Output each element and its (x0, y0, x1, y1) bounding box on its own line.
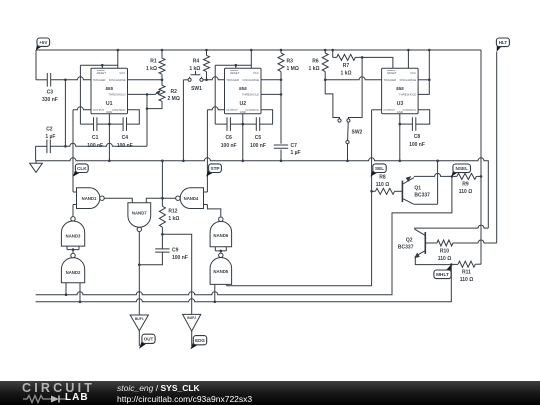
svg-text:R8: R8 (379, 174, 386, 180)
svg-text:R4: R4 (193, 59, 200, 65)
svg-text:R11: R11 (462, 269, 471, 275)
wire NAND7 output drop (138, 232, 140, 315)
svg-text:RESET: RESET (230, 71, 240, 75)
junction gnd SW1 (182, 160, 185, 163)
wire U3 discharge-threshold riser (418, 50, 429, 94)
wire NAND2 input left (65, 283, 67, 295)
svg-text:THRESHOLD: THRESHOLD (242, 93, 259, 97)
wire U2 control elbow (260, 110, 273, 124)
logic gate NAND4 (180, 188, 203, 209)
switch SW2 (338, 119, 341, 122)
logic gate NAND6 (210, 221, 232, 246)
svg-text:RESET: RESET (387, 71, 397, 75)
resistor R1 (161, 50, 163, 58)
svg-text:555: 555 (239, 86, 247, 91)
svg-text:100 nF: 100 nF (409, 142, 425, 148)
logic gate NAND1 (77, 188, 100, 209)
svg-text:110 Ω: 110 Ω (438, 256, 451, 262)
wire R12 branch to BUF2 (162, 234, 191, 314)
svg-text:100 nF: 100 nF (172, 255, 188, 261)
svg-text:1 MΩ: 1 MΩ (287, 66, 299, 72)
wire NAND3 inputs join (67, 246, 79, 250)
wire U2 trigger row (207, 77, 225, 80)
junction gnd U1 (108, 160, 111, 163)
wire U3 control elbow (416, 110, 430, 124)
wire NAND3-NAND2 stem (72, 250, 74, 254)
logic gate NAND3 (61, 221, 84, 246)
svg-text:110 Ω: 110 Ω (460, 277, 473, 283)
svg-text:BC337: BC337 (414, 193, 430, 199)
node STP flag (206, 168, 214, 176)
wire HLT net (496, 52, 498, 243)
svg-text:Q1: Q1 (414, 185, 421, 191)
svg-text:R6: R6 (312, 59, 319, 65)
wire U1 reset link (80, 64, 117, 66)
svg-text:100 nF: 100 nF (117, 143, 133, 149)
wire U3 trigger row (325, 77, 381, 80)
resistor R8 (372, 190, 376, 192)
resistor R9 (452, 175, 457, 177)
node CLK flag (73, 168, 81, 176)
resistor R7 (333, 50, 337, 57)
wire NAND4 output to NAND7 (146, 198, 176, 203)
svg-text:C4: C4 (122, 135, 129, 141)
wire U2 left riser x215 (214, 65, 216, 124)
junction U2 gnd cap row (242, 123, 245, 126)
wire U2 threshold row (261, 93, 281, 95)
wire U3 vcc pin (407, 50, 409, 68)
wire U1 discharge row (128, 79, 163, 81)
capacitor C9 (161, 234, 163, 249)
svg-text:U3: U3 (397, 101, 404, 107)
buffer BUF2 (183, 314, 201, 331)
svg-text:NAND3: NAND3 (66, 233, 81, 238)
junction trigger-C2 link (64, 79, 67, 82)
svg-text:R9: R9 (462, 181, 469, 187)
svg-text:C5: C5 (255, 135, 262, 141)
wire U1 cap row (80, 123, 123, 125)
svg-text:STP: STP (210, 166, 219, 171)
junction gnd NSEL riser (436, 160, 439, 163)
svg-text:C2: C2 (46, 127, 53, 133)
svg-text:C9: C9 (172, 247, 179, 253)
junction U1 gnd cap row (108, 123, 111, 126)
capacitor C1 (94, 117, 97, 131)
svg-text:C1: C1 (92, 135, 99, 141)
svg-text:1 kΩ: 1 kΩ (168, 216, 179, 222)
op-amp U3 555 timer (382, 68, 419, 114)
svg-text:100 nF: 100 nF (87, 143, 103, 149)
wire U1 reset pin (101, 65, 103, 68)
svg-text:330 nF: 330 nF (42, 97, 58, 103)
buffer BUF1 (130, 315, 148, 331)
svg-text:THRESHOLD: THRESHOLD (399, 93, 416, 97)
wire NAND1 inputs (73, 192, 77, 205)
svg-text:C8: C8 (414, 134, 421, 140)
wire U1 control elbow (127, 110, 140, 124)
svg-text:Q2: Q2 (406, 237, 413, 243)
svg-text:RESET: RESET (97, 71, 107, 75)
resistor R3 (280, 50, 282, 53)
wire bus1 (36, 176, 452, 294)
junction gnd SW2 (346, 160, 349, 163)
capacitor C4 (123, 117, 126, 131)
junction gnd C7 (280, 160, 283, 163)
svg-text:TRIGGER: TRIGGER (93, 78, 106, 82)
wire CLK net (72, 110, 74, 192)
wire Q2 base lead (425, 242, 437, 244)
wire Q2 collector row (415, 225, 489, 229)
capacitor C2 (47, 140, 50, 154)
wire SEL riser (371, 110, 373, 286)
op-amp U1 555 timer (91, 68, 128, 114)
CircuitLab logo (22, 383, 94, 403)
junction NSEL node (451, 175, 454, 178)
wire +5V top rail (36, 49, 481, 51)
wire U3 cap row (400, 123, 413, 125)
wire R2 wiper (147, 91, 160, 95)
svg-text:R1: R1 (150, 59, 157, 65)
svg-text:+5V: +5V (39, 40, 47, 45)
node NSEL flag (452, 168, 458, 176)
wire NAND5 input left (214, 284, 216, 301)
svg-text:C6: C6 (225, 135, 232, 141)
wire C7 to gnd bus (280, 150, 282, 161)
wire SW2 feed B (348, 57, 362, 119)
wire R12 riser (161, 161, 163, 198)
transistor Q1 (401, 181, 403, 203)
junction R8-SEL (370, 190, 373, 193)
wire NAND4 inputs (204, 192, 208, 205)
svg-text:1 kΩ: 1 kΩ (341, 70, 352, 76)
capacitor C7 (274, 145, 288, 148)
wire U3 gnd drop (399, 114, 401, 161)
wire U3 output row (372, 109, 382, 111)
wire V+ right drop to R11 (480, 50, 482, 264)
junction gnd R12 branch (161, 160, 164, 163)
capacitor C8 (412, 117, 415, 131)
wire ground bus (36, 158, 489, 228)
switch SW1 (183, 79, 188, 81)
svg-text:VCC: VCC (119, 71, 125, 75)
wire NAND6 output to NAND4 (207, 205, 220, 217)
wire BUF2 output (191, 331, 193, 346)
svg-text:TRIGGER: TRIGGER (226, 78, 239, 82)
wire trigger to C2 row (64, 80, 66, 147)
svg-text:CONTROL: CONTROL (403, 108, 417, 112)
svg-text:555: 555 (105, 86, 113, 91)
wire NAND6 inputs join (215, 247, 226, 251)
wire left gnd drop (35, 146, 37, 161)
svg-text:VCC: VCC (253, 71, 259, 75)
wire NAND3 output to NAND1 (72, 205, 74, 217)
wire SW1 gnd drop (182, 80, 184, 161)
wire NAND1 output to NAND7 (104, 198, 132, 203)
svg-text:SW2: SW2 (352, 129, 363, 135)
svg-text:NAND2: NAND2 (66, 270, 81, 275)
svg-text:BUF1: BUF1 (135, 317, 144, 321)
wire U1 trigger row left (36, 79, 47, 81)
svg-text:OUTPUT: OUTPUT (226, 108, 238, 112)
svg-text:CONTROL: CONTROL (112, 108, 126, 112)
wire BUF1 output (138, 331, 140, 346)
svg-text:THRESHOLD: THRESHOLD (108, 93, 125, 97)
wire Q1 collector row (414, 203, 438, 205)
wire Q2 emitter to MHLT node (415, 256, 451, 264)
wire U1 trigger row right (51, 77, 91, 80)
node MHLT flag (446, 265, 451, 274)
svg-text:BUF2: BUF2 (187, 316, 196, 320)
svg-text:1 kΩ: 1 kΩ (309, 66, 320, 72)
wire U2 reset link (215, 64, 251, 66)
svg-text:DISCHARGE: DISCHARGE (400, 78, 417, 82)
resistor R6 (324, 50, 326, 53)
transistor Q2 (424, 232, 426, 254)
wire U1 threshold row (128, 93, 148, 95)
wire bus2 (36, 265, 452, 302)
wire U3 discharge row (418, 79, 429, 81)
wire U1 vcc pin (117, 50, 119, 68)
svg-text:110 Ω: 110 Ω (376, 182, 389, 188)
svg-text:SW1: SW1 (191, 86, 202, 92)
svg-text:U1: U1 (106, 101, 113, 107)
wire U2 cap row (215, 123, 256, 125)
node HLT flag (497, 42, 502, 51)
wire NSEL riser (437, 161, 439, 205)
svg-text:MHLT: MHLT (436, 272, 449, 277)
svg-text:R12: R12 (168, 209, 177, 215)
resistor R2 potentiometer (161, 80, 163, 86)
node SEL flag (370, 168, 378, 176)
svg-text:NAND4: NAND4 (184, 196, 199, 201)
wire U2 gnd drop (242, 114, 244, 161)
svg-text:DISCHARGE: DISCHARGE (109, 78, 126, 82)
svg-text:HLT: HLT (499, 40, 508, 45)
resistor R4 (206, 50, 208, 55)
wire U1 output row (73, 107, 91, 110)
svg-text:U2: U2 (239, 101, 246, 107)
svg-text:1 µF: 1 µF (291, 150, 301, 156)
svg-text:NAND6: NAND6 (213, 233, 228, 238)
capacitor C6 (227, 117, 230, 131)
svg-text:C3: C3 (47, 90, 54, 96)
wire threshold drop x147 (146, 94, 148, 146)
svg-text:1 kΩ: 1 kΩ (189, 66, 200, 72)
svg-text:R3: R3 (287, 59, 294, 65)
node OUT flag (139, 339, 147, 349)
svg-text:NAND1: NAND1 (82, 196, 97, 201)
junction MHLT node (450, 263, 453, 266)
wire NAND5 input right to SEL riser (227, 284, 372, 285)
wire U2 vcc pin (250, 50, 252, 68)
ground (30, 161, 43, 173)
node +5V flag (36, 42, 42, 50)
svg-text:NAND7: NAND7 (132, 211, 147, 216)
junction NAND7-C9 (138, 264, 141, 267)
svg-text:R10: R10 (440, 248, 449, 254)
svg-text:VCC: VCC (410, 71, 416, 75)
svg-text:EDG: EDG (195, 338, 205, 343)
svg-text:555: 555 (396, 86, 404, 91)
svg-text:CONTROL: CONTROL (246, 108, 260, 112)
svg-text:100 nF: 100 nF (221, 143, 237, 149)
capacitor C5 (256, 117, 259, 131)
wire NAND6-NAND5 stem (220, 251, 222, 253)
svg-text:R7: R7 (343, 63, 350, 69)
svg-text:1 µF: 1 µF (45, 134, 55, 140)
wire C2 row right (50, 143, 147, 146)
svg-text:R2: R2 (171, 89, 178, 95)
svg-text:1 kΩ: 1 kΩ (146, 66, 157, 72)
wire Q1 emitter row (414, 173, 452, 176)
logic gate NAND2 (61, 258, 84, 283)
svg-text:BC337: BC337 (398, 245, 414, 251)
svg-text:110 Ω: 110 Ω (459, 189, 472, 195)
logic gate NAND5 (210, 258, 232, 285)
wire U2 discharge row (261, 79, 281, 81)
wire SW2 feed A (325, 80, 339, 119)
svg-text:NSEL: NSEL (455, 166, 468, 171)
wire C2 row left (36, 145, 47, 147)
node EDG flag (190, 341, 198, 350)
op-amp U2 555 timer (225, 68, 262, 114)
svg-text:2 MΩ: 2 MΩ (168, 96, 180, 102)
wire U1 left riser x80 (79, 65, 81, 124)
svg-text:TRIGGER: TRIGGER (383, 78, 396, 82)
capacitor C3 (47, 73, 50, 87)
svg-text:C7: C7 (291, 143, 298, 149)
resistor R12 (161, 198, 163, 206)
svg-text:OUT: OUT (144, 337, 154, 342)
resistor R11 (451, 263, 458, 265)
svg-text:OUTPUT: OUTPUT (383, 108, 395, 112)
svg-text:SEL: SEL (375, 166, 384, 171)
wire NAND2 input right (79, 283, 81, 302)
wire R3 to C7 (280, 72, 282, 144)
svg-text:CLK: CLK (77, 166, 87, 171)
junction gnd U3 (399, 160, 402, 163)
junction U3 gnd cap row (399, 123, 402, 126)
svg-text:NAND5: NAND5 (213, 269, 228, 274)
wire STP net (206, 110, 208, 192)
wire U2 output row (207, 107, 224, 110)
svg-text:100 nF: 100 nF (250, 143, 266, 149)
wire U2 reset pin (235, 65, 237, 68)
wire +5V left drop (35, 50, 37, 80)
junction gnd U2 (242, 160, 245, 163)
svg-text:DISCHARGE: DISCHARGE (243, 78, 260, 82)
svg-text:OUTPUT: OUTPUT (93, 108, 105, 112)
wire U1 gnd drop (108, 114, 110, 161)
logic gate NAND7 (128, 203, 151, 227)
resistor R10 (437, 240, 453, 246)
